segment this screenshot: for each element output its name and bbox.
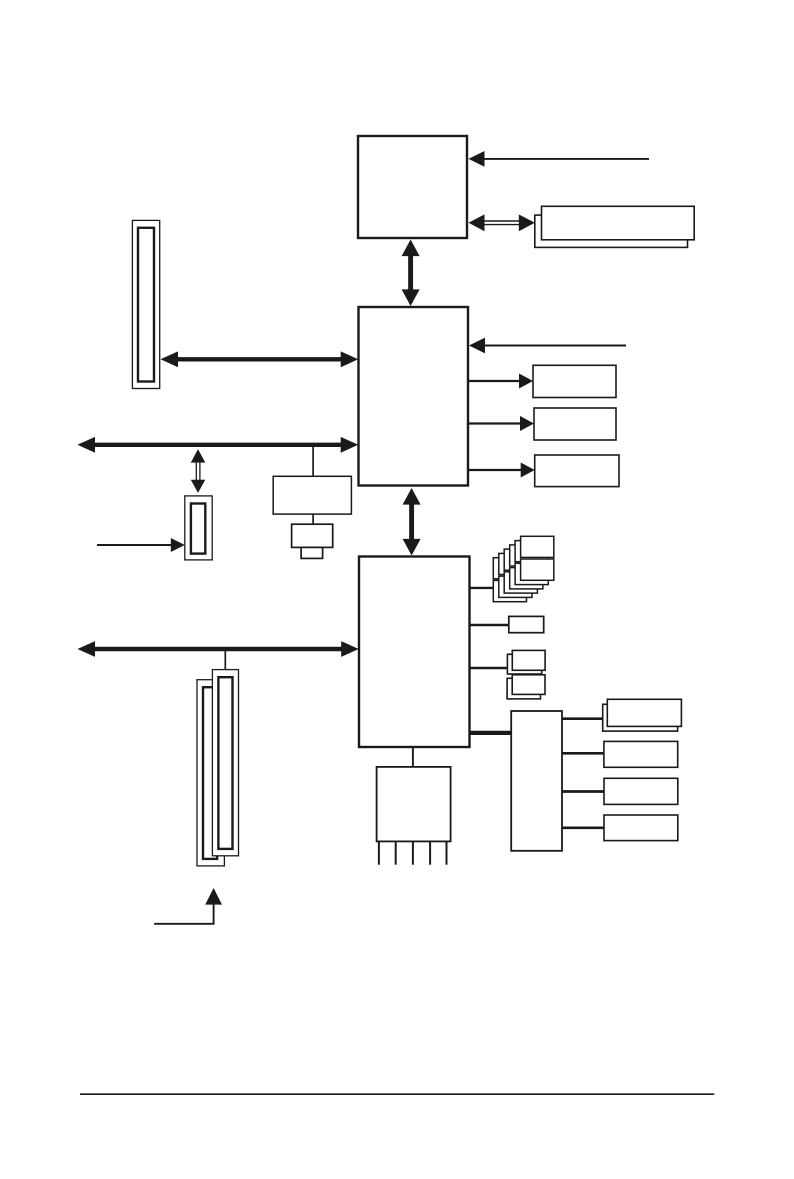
crystal box (292, 524, 333, 547)
CPU box (358, 136, 467, 238)
NB right box 3 (535, 455, 619, 487)
NB right box 2 (534, 408, 616, 440)
northbridge clock wire (483, 345, 626, 347)
AGP slot inner (138, 228, 154, 382)
USB wire (469, 587, 496, 589)
IO box 1 (607, 699, 681, 726)
footer rule (80, 1093, 714, 1095)
IO wire 2 (562, 752, 604, 755)
clock gen drop wire (312, 447, 314, 476)
NB output arrow 2 (468, 422, 522, 424)
PCI slot front inner (218, 677, 232, 849)
CPU-northbridge double arrow (408, 255, 413, 290)
pin header box (377, 767, 451, 842)
connector double arrow (195, 461, 197, 481)
FSB double arrow (481, 220, 523, 222)
super IO box (511, 711, 562, 851)
IO box 1 shadow (603, 704, 678, 731)
NB output arrow 1 (468, 380, 521, 382)
crystal sub box (301, 547, 323, 558)
NB-southbridge double arrow (409, 504, 414, 540)
north bridge box (359, 307, 469, 486)
SB to header wire (412, 747, 414, 767)
IO box 2 (604, 741, 678, 767)
PCI slot back inner (203, 687, 217, 859)
IO box 3 (604, 778, 678, 804)
AGP slot outer (132, 220, 159, 388)
SB small box wire (469, 624, 509, 626)
memory shadow box (535, 215, 688, 247)
PCI slot back outer (197, 680, 224, 866)
connector input wire (97, 544, 172, 546)
PCI slot front outer (212, 670, 238, 856)
south bridge box (359, 557, 470, 748)
PCI drop wire (224, 651, 226, 671)
PCI bus double arrow (94, 647, 342, 651)
clock-crystal wire (312, 514, 314, 524)
SB small box (509, 616, 544, 632)
small connector inner (191, 504, 205, 554)
SB pair group (507, 654, 541, 674)
header pins (378, 841, 380, 864)
IO wire 4 (562, 826, 604, 829)
clock generator box (273, 476, 351, 514)
small connector outer (185, 496, 212, 560)
SB to super IO thick wire (469, 731, 511, 735)
NB output arrow 3 (468, 469, 523, 471)
SB pair wire (469, 667, 509, 669)
IO wire 3 (562, 790, 604, 793)
host bus double arrow (94, 443, 342, 447)
CPU clock wire (483, 158, 649, 160)
IO wire 1 (562, 717, 604, 720)
USB port cascade (493, 558, 526, 579)
IO box 4 (604, 815, 678, 841)
AGP bus double arrow (177, 357, 342, 361)
L-shaped arrow wire (154, 904, 214, 924)
NB right box 1 (533, 365, 616, 397)
memory front box (542, 206, 695, 240)
